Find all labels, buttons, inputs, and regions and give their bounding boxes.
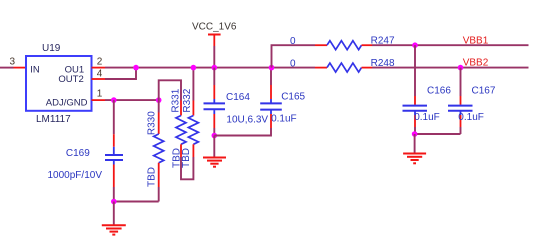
pin 2 stub: [92, 67, 106, 69]
power symbol VCC_1V6: [192, 21, 237, 46]
wire R331/R332 bottoms tie: [181, 157, 193, 179]
svg-text:4: 4: [97, 69, 103, 80]
wire C164-C165 bottom tie: [214, 128, 271, 136]
svg-text:R331: R331: [171, 88, 182, 112]
svg-text:0.1uF: 0.1uF: [458, 112, 484, 123]
wire R248 to VBB2: [372, 67, 529, 69]
junction C164/ground: [212, 133, 218, 139]
junction C169/ground: [111, 199, 117, 205]
ground G2: [203, 158, 226, 167]
wire to ground G1: [113, 202, 115, 225]
wire ADJ net: [105, 99, 159, 101]
svg-text:VBB2: VBB2: [463, 57, 489, 68]
svg-text:VBB1: VBB1: [463, 35, 489, 46]
svg-text:ADJ/GND: ADJ/GND: [46, 97, 88, 108]
capacitor C166: [403, 45, 452, 134]
wire bottom left net: [114, 201, 159, 203]
svg-text:U19: U19: [42, 43, 61, 54]
junction VBB2/C167: [458, 65, 464, 71]
svg-text:R332: R332: [182, 88, 193, 112]
svg-text:C167: C167: [472, 85, 496, 96]
svg-text:C165: C165: [281, 91, 305, 102]
svg-text:3: 3: [10, 57, 16, 68]
svg-text:0.1uF: 0.1uF: [414, 112, 440, 123]
capacitor C167: [448, 68, 496, 134]
svg-text:TBD: TBD: [147, 167, 158, 187]
wire to ground G2: [213, 136, 215, 157]
svg-text:R330: R330: [146, 111, 157, 135]
capacitor C164: [204, 68, 269, 136]
svg-text:0: 0: [290, 36, 296, 47]
wire R247 to VBB1: [372, 44, 529, 46]
svg-text:LM1117: LM1117: [36, 114, 71, 125]
resistor R330: [146, 100, 163, 201]
capacitor C165: [260, 68, 305, 128]
svg-text:1000pF/10V: 1000pF/10V: [48, 170, 103, 181]
ground G1: [102, 225, 126, 234]
svg-text:0: 0: [290, 58, 296, 69]
wire C169 branch upper: [113, 100, 115, 134]
pin 3 stub: [14, 67, 27, 69]
wire main output net: [105, 67, 315, 69]
svg-text:1: 1: [97, 88, 103, 99]
svg-text:TBD: TBD: [181, 148, 192, 168]
svg-text:OUT2: OUT2: [58, 74, 83, 85]
junction C165/main: [269, 65, 275, 71]
op-amp U19 regulator body: [26, 56, 92, 111]
wire pin4 to main net: [105, 68, 136, 79]
junction R332/main: [191, 65, 197, 71]
capacitor C169: [48, 134, 124, 187]
ground G3: [403, 154, 426, 164]
svg-text:C166: C166: [427, 85, 451, 96]
resistor R331: [171, 88, 186, 168]
svg-text:C169: C169: [66, 148, 90, 159]
junction ADJ/C169: [111, 97, 117, 103]
svg-text:0.1uF: 0.1uF: [271, 113, 297, 124]
wire C166-C167 bottom tie: [415, 133, 461, 135]
resistor R247: [290, 36, 395, 50]
wire pin3 input: [0, 67, 14, 69]
pin 4 stub: [92, 78, 106, 80]
svg-text:VCC_1V6: VCC_1V6: [192, 21, 237, 32]
wire to ground G3: [414, 134, 416, 153]
svg-text:10U,6.3V: 10U,6.3V: [226, 114, 268, 125]
svg-text:IN: IN: [30, 65, 40, 76]
junction C166/ground: [412, 131, 418, 137]
svg-text:2: 2: [97, 57, 103, 68]
wire main to R247 row: [272, 45, 316, 67]
resistor R248: [290, 58, 395, 72]
resistor R332: [181, 68, 198, 168]
junction ADJ/R330: [156, 97, 162, 103]
junction pin4/main: [133, 65, 139, 71]
junction VBB1/C166: [412, 42, 418, 48]
svg-text:C164: C164: [226, 92, 250, 103]
wire C169 bottom: [113, 187, 115, 202]
wire ADJ jog to R331: [159, 80, 181, 100]
wire VCC to main net: [213, 46, 215, 68]
pin 1 stub: [92, 99, 106, 101]
junction VCC/main: [212, 65, 218, 71]
